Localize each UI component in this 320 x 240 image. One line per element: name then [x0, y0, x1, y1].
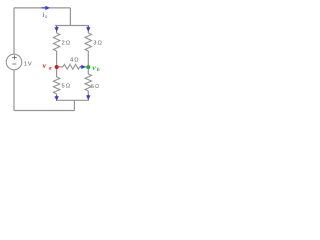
- wire va to middle resistor: [57, 66, 63, 68]
- wire top from source to feed corner: [14, 7, 71, 9]
- wire left vertical above source: [13, 8, 15, 54]
- current arrow is on top wire: [42, 7, 46, 9]
- wire middle resistor to vb: [80, 66, 89, 68]
- wire right branch lower: [87, 91, 89, 100]
- wire left branch middle through va: [56, 51, 58, 77]
- wire left branch upper: [56, 26, 58, 34]
- voltage source minus sign: [12, 63, 16, 65]
- voltage source plus sign: [12, 55, 17, 59]
- svg-text:i: i: [42, 11, 44, 19]
- svg-text:3 Ω: 3 Ω: [93, 40, 102, 46]
- wire left branch lower: [56, 94, 58, 100]
- svg-text:4 Ω: 4 Ω: [70, 58, 79, 64]
- wire top rail: [55, 25, 89, 27]
- current arrow into R1: [56, 26, 58, 27]
- wire bottom connect rail: [56, 99, 89, 101]
- current arrow into R2: [87, 26, 89, 27]
- resistor R3 5ohm zigzag left bottom: [53, 77, 59, 94]
- wire bottom stub up to connect rail: [73, 100, 75, 110]
- svg-text:v: v: [92, 63, 96, 72]
- svg-text:v: v: [43, 61, 47, 70]
- current arrow out of R4: [87, 95, 89, 96]
- svg-text:5 Ω: 5 Ω: [91, 84, 99, 90]
- resistor R5 4ohm horizontal zigzag: [63, 64, 80, 69]
- svg-text:a: a: [49, 65, 52, 71]
- wire feed down into top rail: [69, 8, 71, 26]
- svg-text:2 Ω: 2 Ω: [61, 40, 70, 46]
- wire left vertical below source: [13, 70, 15, 111]
- wire bottom from source: [14, 110, 75, 112]
- svg-text:b: b: [97, 67, 100, 73]
- resistor R4 5ohm zigzag right bottom: [85, 74, 91, 91]
- resistor R1 2ohm zigzag: [53, 33, 59, 51]
- voltage source V1 circle: [6, 54, 22, 70]
- current arrow out of R3: [56, 96, 58, 97]
- svg-text:1 V: 1 V: [24, 61, 32, 67]
- resistor R2 3ohm zigzag: [85, 33, 91, 51]
- wire right branch middle through vb: [87, 51, 89, 74]
- wire right branch upper: [87, 26, 89, 34]
- node va dot: [55, 65, 59, 69]
- current arrow through R5 toward vb: [80, 66, 81, 68]
- svg-text:5 Ω: 5 Ω: [61, 84, 70, 90]
- svg-text:s: s: [45, 14, 47, 20]
- node vb dot: [86, 65, 90, 69]
